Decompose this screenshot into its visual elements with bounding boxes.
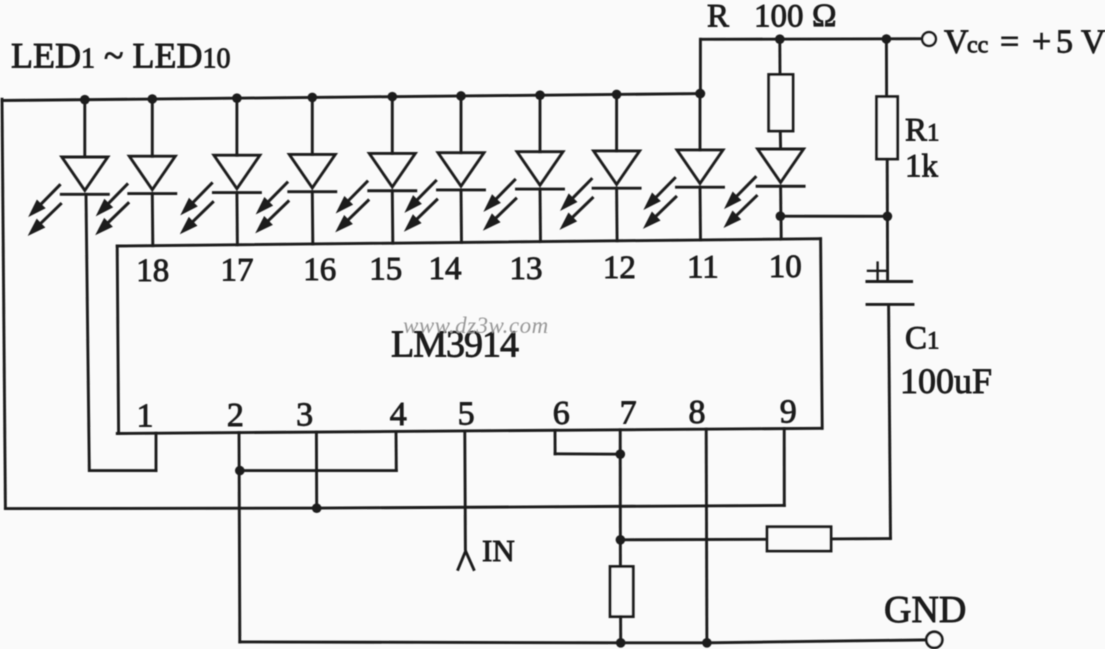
svg-text:10: 10 [769, 249, 802, 285]
svg-text:11: 11 [687, 250, 719, 286]
svg-text:IN: IN [482, 533, 515, 568]
svg-text:100: 100 [754, 0, 804, 35]
svg-text:5: 5 [458, 396, 475, 433]
svg-text:6: 6 [553, 395, 570, 432]
svg-text:18: 18 [136, 253, 169, 289]
svg-text:16: 16 [303, 252, 336, 288]
svg-text:3: 3 [296, 397, 313, 434]
svg-text:1k: 1k [905, 149, 939, 185]
svg-text:www.dz3w.com: www.dz3w.com [403, 313, 549, 338]
svg-text:GND: GND [884, 589, 966, 631]
svg-text:15: 15 [369, 252, 402, 288]
svg-text:LED1 ~ LED10: LED1 ~ LED10 [11, 36, 230, 76]
svg-text:8: 8 [689, 394, 706, 431]
svg-text:100uF: 100uF [900, 361, 992, 401]
svg-text:4: 4 [390, 396, 407, 433]
svg-text:13: 13 [510, 251, 543, 287]
svg-text:R: R [707, 0, 729, 35]
svg-text:17: 17 [221, 252, 254, 288]
svg-text:14: 14 [429, 251, 462, 287]
svg-text:9: 9 [780, 394, 797, 431]
svg-text:1: 1 [137, 398, 154, 435]
svg-text:2: 2 [227, 397, 244, 434]
svg-text:7: 7 [620, 395, 637, 432]
svg-text:Ω: Ω [812, 0, 837, 34]
svg-text:12: 12 [603, 250, 636, 286]
